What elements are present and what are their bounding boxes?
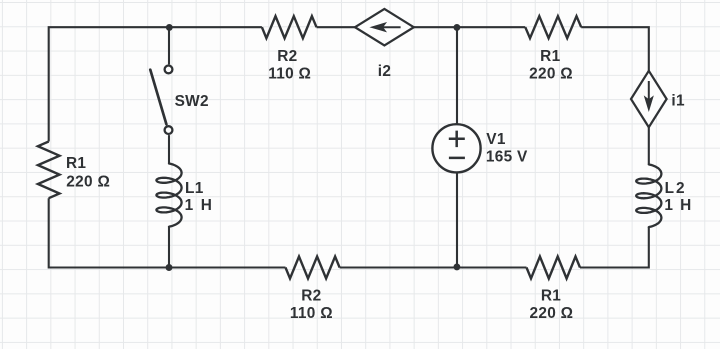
- node A junction dot (top left): [166, 24, 173, 31]
- node B junction dot (top middle): [453, 24, 460, 31]
- resistor R1 (top right, 220 ohm): [525, 16, 581, 38]
- current source i2 (diamond, arrow pointing left): [355, 9, 414, 46]
- wire: SW2 to L1: [168, 135, 170, 163]
- resistor R1 (bottom, 220 ohm): [527, 257, 581, 279]
- svg-text:R1: R1: [66, 155, 86, 172]
- svg-text:R2: R2: [277, 48, 297, 65]
- svg-text:1: 1: [185, 197, 194, 214]
- inductor L1 (1 H): [156, 164, 181, 227]
- inductor L2 (1 H): [636, 164, 661, 227]
- wire: R1 (top) to right rail down to i1: [581, 27, 649, 71]
- svg-text:R1: R1: [540, 48, 560, 65]
- current source i1 (diamond, arrow pointing down): [631, 71, 667, 127]
- svg-text:1: 1: [664, 197, 673, 214]
- node C junction dot (bottom left): [166, 264, 173, 271]
- resistor R1 (left, 220 ohm): [38, 142, 60, 199]
- resistor R2 (bottom, 110 ohm): [286, 257, 340, 279]
- svg-text:H: H: [680, 197, 691, 214]
- svg-text:R1: R1: [541, 288, 561, 305]
- voltage source V1 (165 V): [432, 124, 480, 172]
- svg-text:220 Ω: 220 Ω: [530, 305, 574, 322]
- svg-text:110 Ω: 110 Ω: [268, 66, 311, 83]
- wire: R2 (bottom) to R1 (bottom), through node D: [340, 266, 527, 268]
- wire: i1 to L2: [648, 127, 650, 164]
- wire: i2 to R1 (top), through node B: [414, 26, 526, 28]
- svg-text:L1: L1: [185, 180, 204, 197]
- wire: node B down to V1: [456, 27, 458, 124]
- svg-text:2: 2: [676, 180, 685, 197]
- wire: R2 (top) to i2: [317, 26, 356, 28]
- wire: left rail upper + top-left segment to R2: [49, 27, 262, 141]
- wire: V1 down to node D: [456, 173, 458, 268]
- svg-text:V1: V1: [486, 131, 506, 148]
- svg-text:SW2: SW2: [175, 93, 209, 110]
- svg-text:i2: i2: [378, 63, 391, 80]
- wire: node A down to SW2: [168, 27, 170, 64]
- switch SW2: [165, 66, 173, 74]
- wire: L2 to bottom-right corner to R1 (bottom): [580, 227, 649, 267]
- svg-text:110 Ω: 110 Ω: [290, 305, 333, 322]
- svg-text:220 Ω: 220 Ω: [66, 174, 110, 191]
- svg-text:L: L: [665, 180, 674, 197]
- svg-text:220 Ω: 220 Ω: [529, 66, 573, 83]
- wire: L1 down to node C: [168, 227, 170, 268]
- svg-text:R2: R2: [301, 288, 321, 305]
- node D junction dot (bottom middle): [453, 263, 460, 270]
- svg-text:165 V: 165 V: [486, 149, 528, 166]
- svg-text:H: H: [201, 197, 212, 214]
- resistor R2 (top, 110 ohm): [262, 16, 317, 38]
- wire: left rail lower to bottom-left corner to R2 (bottom): [49, 198, 286, 267]
- svg-text:i1: i1: [671, 93, 685, 110]
